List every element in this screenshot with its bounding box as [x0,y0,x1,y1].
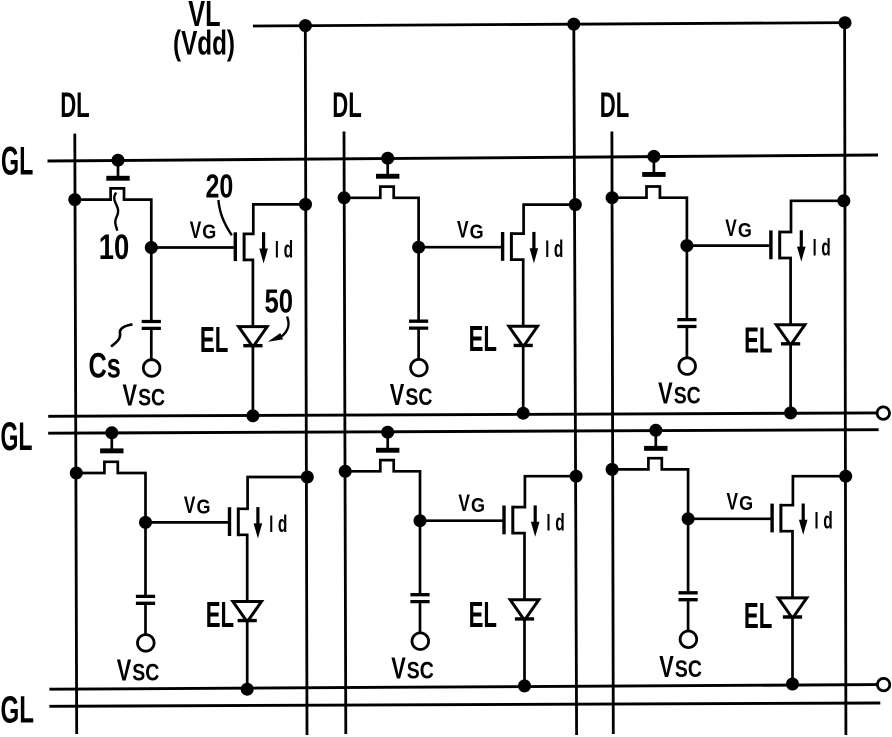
storage capacitor R1C3 plates [677,318,696,321]
storage capacitor R1C1 bottom lead [150,330,153,360]
svg-text:d: d [823,508,833,535]
terminal VSC R2C1 [138,635,155,652]
svg-text:G: G [470,220,484,243]
junction dot R1C3 gate line tap [647,150,660,163]
current arrow Id R1C2 [532,232,535,249]
svg-text:SC: SC [407,658,434,685]
svg-text:SC: SC [138,385,165,412]
svg-text:EL: EL [200,319,228,360]
svg-text:I: I [547,510,551,537]
storage capacitor R1C2 top lead [417,247,420,320]
junction dot R2C3 data line tap [606,463,619,476]
terminal VSC R2C3 [680,631,697,648]
svg-text:SC: SC [405,384,432,411]
driving TFT R1C3 source lead (to EL) [780,258,791,325]
power line VL1 [305,26,307,736]
svg-text:SC: SC [675,656,702,683]
storage capacitor R1C3 bottom lead [686,328,689,358]
driving TFT R2C2 gate bar [502,506,505,535]
EL diode R2C1 cathode bar [238,619,257,622]
junction dot R1C2 data line tap [338,191,351,204]
junction dot R1C1 storage node [145,241,158,254]
junction dot R2C3 storage node [682,512,695,525]
svg-text:I: I [813,234,817,261]
storage capacitor R2C1 top lead [144,522,147,595]
junction dot R1C3 power line tap [837,194,850,207]
svg-text:V: V [190,217,202,244]
EL diode R2C2 anode triangle [510,600,539,620]
current arrow Id R2C3 [802,504,805,521]
leader line for Cs [111,324,132,346]
svg-text:DL: DL [332,85,362,125]
svg-text:EL: EL [469,318,497,359]
wire R2C1 VG (node to driver gate) [146,521,228,524]
driving TFT R2C2 source lead (to EL) [513,533,525,600]
EL diode R2C1 cathode wire [246,622,249,689]
svg-text:d: d [555,510,565,537]
junction dot R2C3 power line tap [839,470,852,483]
current arrow Id R2C2 [534,505,537,522]
svg-text:(Vdd): (Vdd) [173,24,235,62]
data line DL2 [344,132,346,735]
driving TFT R1C1 gate bar [234,232,237,261]
svg-text:d: d [554,236,564,263]
junction dot R1C1 power line tap [299,198,312,211]
switching TFT R1C2 gate electrode [386,158,389,174]
storage capacitor R2C2 top lead [419,521,422,594]
storage capacitor R2C3 top lead [687,519,690,592]
junction dot R1C2 power line tap [569,198,582,211]
svg-text:I: I [269,511,273,538]
power line VL3 [845,23,846,735]
svg-text:G: G [738,219,752,242]
storage capacitor R2C3 bottom lead [687,601,690,631]
junction dot VL bus / VL1 [299,19,312,32]
svg-text:EL: EL [206,594,234,635]
EL diode R2C3 cathode bar [783,615,802,618]
storage capacitor R2C2 plates [410,593,429,596]
gate line GL row3 [49,703,880,706]
svg-text:I: I [275,236,279,263]
common cathode line row2 [49,685,877,690]
svg-text:GL: GL [1,140,33,184]
driving TFT R1C3 gate bar [769,230,772,259]
leader line for 20 [218,200,231,235]
storage capacitor R1C2 bottom lead [417,330,420,360]
gate line GL row1 [48,155,879,161]
driving TFT R1C2 gate bar [501,232,504,261]
svg-text:V: V [659,650,674,684]
svg-text:10: 10 [99,228,130,267]
switching TFT R2C1 channel (source-drain) [76,462,145,523]
svg-text:V: V [658,377,673,411]
junction dot R2C3 cathode line tap [786,678,799,691]
junction dot R2C1 cathode line tap [241,683,254,696]
EL diode R2C2 cathode bar [515,617,534,620]
terminal VSC R2C2 [412,633,429,650]
switching TFT R2C2 channel (source-drain) [345,460,420,521]
svg-text:V: V [123,379,138,413]
terminal VSC R1C3 [679,358,696,375]
driving TFT R1C3 channel [778,231,781,260]
leader line for 10 [114,193,118,231]
EL diode R1C2 cathode bar [514,344,533,347]
EL diode R1C1 anode triangle [239,327,268,347]
junction dot R2C1 gate line tap [105,426,118,439]
EL diode R1C1 cathode wire [252,347,255,416]
EL diode R2C3 anode triangle [778,598,807,618]
EL diode R2C2 cathode wire [523,620,526,686]
gate line GL row2 [48,430,878,434]
switching TFT R2C3 channel (source-drain) [612,458,688,519]
svg-text:V: V [727,488,739,515]
svg-text:EL: EL [469,594,497,635]
switching TFT R1C1 gate electrode [117,160,120,176]
storage capacitor R2C1 plates [136,595,155,598]
storage capacitor R1C2 plates [409,320,428,323]
wire R1C2 VG (node to driver gate) [419,246,501,249]
switching TFT R1C3 channel (source-drain) [612,187,687,246]
driving TFT R1C1 channel [243,233,246,262]
driving TFT R2C1 drain lead (to VL) [238,477,307,509]
driving TFT R2C1 gate bar [228,507,231,536]
junction dot R2C1 data line tap [70,467,83,480]
storage capacitor R1C3 top lead [686,246,689,319]
switching TFT R2C1 gate electrode [110,433,113,449]
junction dot R1C1 data line tap [68,193,81,206]
driving TFT R1C2 drain lead (to VL) [511,205,575,234]
driving TFT R2C3 channel [779,504,782,533]
driving TFT R2C2 channel [511,506,514,535]
junction dot R1C1 gate line tap [112,154,125,167]
EL diode R1C2 cathode wire [522,347,525,414]
junction dot R1C3 data line tap [606,191,619,204]
switching TFT R1C2 channel (source-drain) [344,187,419,248]
svg-text:GL: GL [1,690,35,732]
power line VL2 [574,24,577,735]
EL diode R1C3 cathode wire [789,345,792,413]
svg-text:V: V [457,217,469,244]
junction dot R2C1 storage node [139,516,152,529]
junction dot R1C2 cathode line tap [517,407,530,420]
svg-text:EL: EL [744,595,772,636]
driving TFT R2C3 drain lead (to VL) [781,476,846,505]
storage capacitor R1C1 top lead [150,248,153,321]
current arrow Id R1C1 [262,232,265,249]
driving TFT R1C1 source lead (to EL) [244,260,253,327]
EL diode R1C1 cathode bar [243,344,262,347]
svg-text:I: I [815,508,819,535]
common cathode line row1 [48,413,877,416]
wire R2C3 VG (node to driver gate) [688,517,770,520]
svg-text:G: G [471,494,485,517]
junction dot VL bus / VL2 [567,18,580,31]
EL diode R1C3 cathode bar [781,342,800,345]
junction dot R2C3 gate line tap [649,424,662,437]
storage capacitor R2C1 bottom lead [144,605,147,635]
EL diode R1C2 anode triangle [509,326,538,346]
svg-text:GL: GL [1,415,33,459]
svg-text:d: d [284,236,294,263]
junction dot R1C1 cathode line tap [246,409,259,422]
svg-text:V: V [390,378,405,412]
driving TFT R2C3 gate bar [770,504,773,533]
svg-text:20: 20 [206,168,234,205]
junction dot R2C2 data line tap [339,465,352,478]
wire R1C1 VG (node to driver gate) [151,246,233,249]
svg-text:V: V [725,215,737,242]
svg-text:DL: DL [60,85,89,125]
svg-text:G: G [739,492,753,515]
svg-text:Cs: Cs [89,346,121,385]
storage capacitor R2C3 plates [679,591,698,594]
open terminal row1 cathode line [877,407,889,419]
open terminal row2 cathode line [877,678,889,690]
junction dot VL bus / VL3 [839,16,852,29]
svg-text:V: V [458,490,470,517]
junction dot R2C2 cathode line tap [518,679,531,692]
switching TFT R2C2 gate electrode [386,432,389,448]
driving TFT R2C2 drain lead (to VL) [513,476,576,507]
svg-text:G: G [197,496,211,519]
EL diode R2C3 cathode wire [791,618,794,684]
switching TFT R1C3 gate electrode [653,156,656,172]
svg-text:V: V [184,492,196,519]
data line DL3 [612,132,613,735]
leader arrow for 50 [282,317,289,337]
switching TFT R1C1 channel (source-drain) [75,188,152,247]
terminal VSC R1C2 [411,359,428,376]
driving TFT R2C1 source lead (to EL) [238,535,247,602]
wire R2C2 VG (node to driver gate) [420,519,502,522]
junction dot R2C1 power line tap [301,471,314,484]
current arrow Id R1C3 [800,230,803,247]
svg-text:SC: SC [674,383,701,410]
svg-text:DL: DL [600,85,630,125]
svg-text:I: I [545,236,549,263]
svg-text:V: V [391,652,406,686]
driving TFT R2C1 channel [237,507,240,536]
storage capacitor R1C1 plates [142,320,161,323]
driving TFT R2C3 source lead (to EL) [781,531,793,598]
terminal VSC R1C1 [143,360,160,377]
current arrow Id R2C1 [256,507,259,524]
svg-text:EL: EL [744,320,772,361]
storage capacitor R2C2 bottom lead [419,603,422,633]
driving TFT R1C3 drain lead (to VL) [780,201,844,232]
junction dot R1C2 gate line tap [381,152,394,165]
svg-text:d: d [821,234,831,261]
EL diode R2C1 anode triangle [233,602,262,622]
svg-text:50: 50 [265,282,294,319]
VL power bus [253,23,848,26]
svg-text:V: V [117,653,132,687]
driving TFT R1C1 drain lead (to VL) [244,204,305,234]
driving TFT R1C2 channel [510,232,513,261]
junction dot R2C2 gate line tap [381,426,394,439]
EL diode R1C3 anode triangle [776,325,805,345]
svg-text:SC: SC [132,659,159,686]
junction dot R2C2 storage node [414,514,427,527]
svg-text:G: G [202,221,216,244]
junction dot R1C2 storage node [412,241,425,254]
switching TFT R2C3 gate electrode [654,430,657,446]
wire R1C3 VG (node to driver gate) [687,244,769,247]
junction dot R1C3 storage node [680,239,693,252]
junction dot R2C2 power line tap [570,470,583,483]
junction dot R1C3 cathode line tap [784,406,797,419]
data line DL1 [75,134,77,734]
svg-text:d: d [278,511,288,538]
driving TFT R1C2 source lead (to EL) [511,260,523,327]
